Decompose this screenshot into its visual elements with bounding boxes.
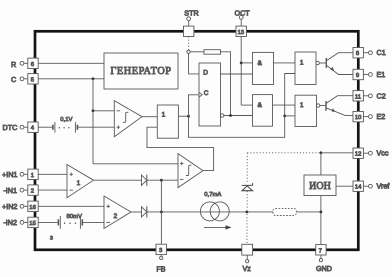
svg-text:1: 1	[300, 102, 304, 109]
wire NOR2 to Q2 base	[320, 105, 326, 107]
pin Vz	[242, 244, 253, 263]
gate AND2	[253, 95, 273, 127]
wire STR dotted lead	[188, 37, 190, 50]
svg-text:1: 1	[77, 180, 81, 187]
label E1	[377, 70, 386, 79]
wire battery to amp2 inverting input	[82, 221, 104, 223]
svg-text:10: 10	[355, 115, 362, 121]
label OCT	[235, 8, 251, 17]
svg-text:C: C	[204, 90, 209, 97]
node current source line to Vz net	[246, 211, 249, 214]
NOR1 output inversion bubble	[316, 61, 319, 64]
svg-text:&: &	[258, 102, 263, 109]
pin 5 C	[20, 74, 38, 84]
svg-text:1: 1	[300, 59, 304, 66]
svg-text:E1: E1	[377, 70, 386, 79]
svg-text:&: &	[258, 60, 263, 67]
flip-flop Q-bar inversion bubble	[221, 114, 224, 117]
pin 9 E1	[353, 69, 372, 79]
label C1	[377, 48, 386, 57]
label 80mV	[67, 214, 82, 220]
pin STR	[184, 17, 194, 37]
diode VD1	[142, 175, 147, 186]
wire -IN2 to battery	[38, 221, 58, 223]
wire ION to pin 14 Vref	[336, 185, 353, 187]
svg-text:9: 9	[356, 73, 359, 79]
gate AND1	[253, 52, 274, 84]
wire dashed resistor to GND rail	[296, 211, 321, 213]
svg-text:1: 1	[162, 112, 166, 119]
gate OR (PWM/DTC combiner)	[157, 105, 178, 138]
svg-text:C: C	[11, 75, 16, 84]
node NOR2 second input	[283, 115, 295, 118]
label +IN2	[2, 202, 17, 211]
wire +IN2 row	[38, 205, 104, 207]
wire +IN1 row	[38, 173, 67, 175]
wire R row	[38, 62, 104, 64]
wire PWM comparator output feedback to OR gate input	[147, 127, 214, 170]
svg-text:+IN1: +IN1	[2, 170, 17, 179]
diode VD2	[142, 206, 147, 217]
wire STR node to resistor	[190, 51, 204, 53]
pin 10 E2	[353, 111, 372, 121]
current source 0,7mA	[200, 202, 229, 221]
wire CT rail to PWM comparator noninverting input	[93, 163, 178, 165]
svg-text:-IN1: -IN1	[3, 186, 17, 195]
comparator PWM	[178, 154, 203, 188]
op-amp error amplifier 2	[104, 196, 131, 229]
wire diode2 row to current source and node	[147, 211, 273, 213]
svg-text:80mV: 80mV	[67, 214, 82, 220]
svg-text:12: 12	[355, 152, 362, 158]
label Vcc	[377, 149, 389, 158]
node CT to DTC comparator	[92, 109, 95, 112]
svg-text:Vcc: Vcc	[377, 149, 389, 158]
wire Vcc node to ION regulator	[320, 153, 322, 175]
resistor (dashed optional)	[273, 208, 296, 215]
pin 1 +IN1	[20, 169, 38, 179]
wire amp1 output to diode1	[94, 179, 142, 181]
svg-text:15: 15	[29, 221, 36, 227]
voltage reference block ION	[304, 175, 336, 196]
wire OR gate output node	[178, 115, 190, 118]
NOR2 output inversion bubble	[317, 104, 320, 107]
svg-text:OCT: OCT	[235, 8, 251, 17]
svg-text:E2: E2	[377, 112, 386, 121]
label C	[11, 75, 16, 84]
pin 13 OCT	[236, 15, 246, 36]
wire AND1 output	[274, 62, 296, 64]
wire OCT to AND2	[241, 104, 252, 106]
node on C row	[92, 77, 95, 80]
wire -IN1 row	[38, 189, 67, 191]
svg-text:STR: STR	[184, 8, 198, 17]
wire ION to GND	[320, 196, 322, 245]
comparator DTC (dead-time)	[114, 101, 142, 137]
svg-text:11: 11	[355, 94, 361, 100]
wire DTC comparator output	[142, 116, 157, 118]
zener diode VD3	[242, 183, 253, 191]
op-amp error amplifier 1	[67, 165, 94, 198]
wire CT rail vertical	[92, 79, 94, 164]
wire OR output to output-steering NOR gates	[189, 74, 296, 138]
stray figure digit 3	[50, 234, 53, 241]
resistor R1	[204, 50, 221, 55]
wire OR output to flip-flop clock	[189, 95, 200, 116]
wire STR node to flip-flop D input	[189, 53, 200, 74]
svg-text:R: R	[11, 60, 16, 69]
label +IN1	[2, 170, 17, 179]
svg-text:+IN2: +IN2	[2, 202, 17, 211]
terminal node STR	[187, 50, 190, 53]
pin 3 FB	[156, 244, 166, 259]
svg-text:16: 16	[29, 205, 36, 211]
node OCT to AND1	[240, 62, 253, 65]
flip-flop D trigger	[199, 63, 221, 126]
svg-text:1: 1	[31, 173, 34, 179]
wire Vcc dotted rail	[247, 152, 319, 154]
wire feedback FB vertical	[160, 180, 162, 244]
label R	[11, 60, 16, 69]
wire resistor to flip-flop Q-bar net	[221, 52, 231, 116]
svg-text:0,7mA: 0,7mA	[204, 192, 221, 198]
pin 6 R	[20, 58, 38, 68]
label 0,1V	[60, 117, 72, 123]
svg-text:з: з	[50, 234, 53, 241]
gate NOR2	[295, 95, 317, 126]
wire diode1 to PWM comparator inverting input	[147, 179, 178, 181]
label Vz	[243, 264, 252, 273]
label 0,7mA	[204, 192, 221, 198]
svg-text:FB: FB	[156, 265, 165, 274]
label FB	[156, 265, 165, 274]
pin 2 -IN1	[20, 185, 38, 195]
pin 15 -IN2	[20, 217, 38, 227]
label E2	[377, 112, 386, 121]
label DTC	[3, 123, 18, 132]
label Vref	[377, 182, 390, 191]
label -IN2	[3, 218, 17, 227]
wire Vcc node to pin 12	[321, 152, 353, 154]
gate NOR1	[295, 52, 316, 85]
label C2	[377, 91, 386, 100]
svg-text:2: 2	[31, 189, 34, 195]
label GND	[316, 264, 332, 273]
label -IN1	[3, 186, 17, 195]
battery 0,1V	[53, 122, 78, 133]
transistor Q2	[326, 96, 353, 116]
pin 16 +IN2	[20, 201, 38, 211]
transistor Q1	[326, 53, 353, 75]
wire output control OCT vertical	[240, 37, 242, 106]
pin 7 GND	[316, 245, 326, 262]
wire CT to DTC comparator inverting input	[93, 110, 114, 112]
node Vcc	[320, 151, 323, 154]
wire C row	[38, 78, 104, 80]
svg-text:13: 13	[238, 30, 245, 36]
wire DTC row to battery	[38, 126, 52, 128]
wire amp2 output to diode2	[131, 211, 142, 213]
wire AND2 output	[273, 104, 296, 106]
node feedback FB row2	[160, 211, 163, 214]
svg-text:C1: C1	[377, 48, 386, 57]
wire flip-flop Q output to AND1	[221, 73, 253, 75]
wire NOR1 to Q1 base	[319, 62, 326, 64]
svg-text:DTC: DTC	[3, 123, 18, 132]
pin 11 C2	[353, 91, 372, 101]
svg-text:Vref: Vref	[377, 182, 390, 191]
pin 12 Vcc	[353, 148, 372, 158]
svg-text:C2: C2	[377, 91, 386, 100]
label STR	[184, 8, 198, 17]
svg-text:0,1V: 0,1V	[60, 117, 72, 123]
pin 4 DTC	[20, 122, 38, 132]
current direction arrow	[204, 225, 232, 229]
svg-text:D: D	[203, 69, 208, 76]
svg-text:ИОН: ИОН	[309, 181, 331, 192]
svg-text:Vz: Vz	[243, 264, 252, 273]
wire flip-flop Q-bar to AND2	[224, 114, 253, 117]
svg-text:GND: GND	[316, 264, 332, 273]
svg-text:2: 2	[114, 213, 118, 220]
svg-text:-IN2: -IN2	[3, 218, 17, 227]
svg-text:7: 7	[319, 248, 322, 254]
IC outline border	[35, 31, 358, 250]
oscillator block GENERATOR	[104, 53, 178, 89]
battery 80mV	[58, 216, 82, 229]
svg-text:14: 14	[355, 185, 362, 191]
svg-text:ГЕНЕРАТОР: ГЕНЕРАТОР	[110, 66, 171, 77]
node feedback FB row1	[160, 179, 163, 182]
wire zener dotted net	[246, 153, 248, 245]
wire battery to DTC comparator plus input	[77, 126, 114, 128]
pin 8 C1	[353, 48, 372, 58]
pin 14 Vref	[353, 181, 372, 191]
node on GND rail	[320, 211, 323, 214]
